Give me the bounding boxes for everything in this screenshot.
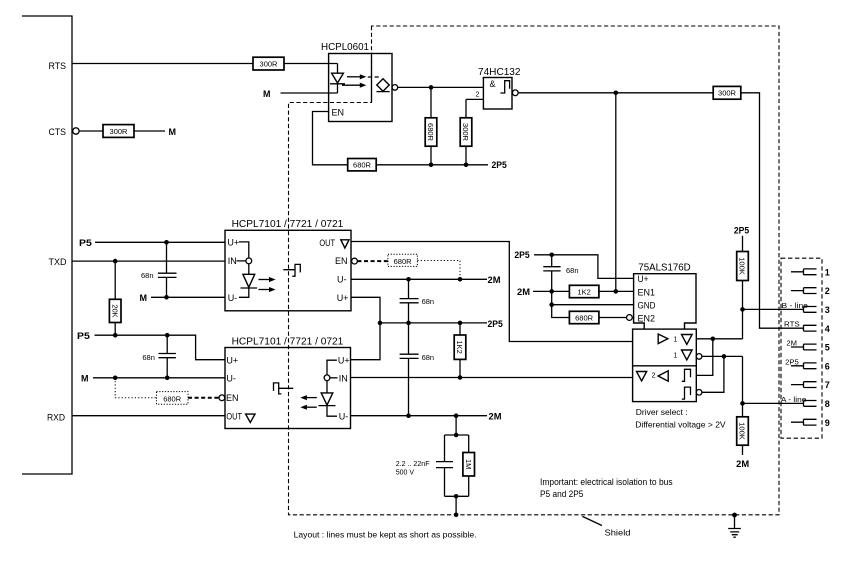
- IC U4 75ALS176D: [634, 263, 696, 330]
- wire receiver row3 input: [696, 339, 713, 376]
- isolation barrier solid segment inside HCPL0601: [371, 55, 373, 102]
- svg-text:74HC132: 74HC132: [478, 67, 521, 78]
- svg-text:Important: electrical isolatio: Important: electrical isolation to bus: [540, 477, 673, 487]
- svg-text:P5: P5: [77, 331, 90, 341]
- svg-text:2P5: 2P5: [734, 226, 749, 236]
- resistor 1K2 (EN1): [569, 285, 599, 297]
- node junction shield ground: [732, 513, 737, 518]
- wire opto output to 74HC132 input1: [398, 86, 484, 88]
- wire P5 to U3 U+: [95, 335, 226, 360]
- wire EN1 drop vertical: [615, 93, 617, 292]
- resistor 20K (TXD pullup): [109, 261, 121, 335]
- pin 6 2P5: [785, 359, 830, 371]
- diode LED (U3): [319, 381, 338, 417]
- wire left host border: [22, 16, 72, 474]
- wire CTS to resistor: [79, 130, 103, 132]
- svg-text:EN2: EN2: [638, 313, 656, 323]
- svg-text:M: M: [263, 89, 271, 99]
- svg-text:U+: U+: [226, 356, 238, 366]
- op-amp U2 HCPL7101 upper: [225, 219, 351, 311]
- internal input circle (U2): [237, 242, 252, 264]
- wire 2M rail (U3): [351, 415, 488, 417]
- wire M to U3 U-: [93, 377, 225, 379]
- wire EN dashed (U3): [188, 397, 219, 399]
- svg-text:Differential voltage > 2V: Differential voltage > 2V: [635, 420, 726, 430]
- wire dotted M to 680R (U3 EN): [115, 378, 156, 398]
- pin 2: [791, 286, 830, 296]
- node junction M/cap: [164, 295, 169, 300]
- svg-text:P5 and 2P5: P5 and 2P5: [540, 489, 583, 499]
- op-amp U1 HCPL0601 optocoupler: [321, 42, 392, 122]
- light arrows (U2): [259, 277, 276, 292]
- svg-text:2: 2: [476, 92, 480, 99]
- pin 7: [791, 380, 830, 390]
- resistor 1M: [463, 435, 475, 496]
- wire 2M to cap branch: [455, 416, 457, 435]
- svg-text:U-: U-: [339, 412, 349, 422]
- pin EN2 circle (U4): [627, 315, 633, 321]
- output circle (HCPL0601): [392, 85, 398, 91]
- wire U2 OUT to driver input: [351, 242, 633, 342]
- resistor 680R (EN pullup horizontal): [348, 159, 377, 171]
- svg-text:1: 1: [674, 352, 678, 359]
- pin OUT label (U2 right): [319, 238, 349, 248]
- svg-text:680R: 680R: [163, 394, 182, 403]
- resistor 300R (vertical, NAND in2): [460, 99, 472, 164]
- svg-text:2M: 2M: [517, 287, 530, 297]
- wire CTS resistor to M: [134, 130, 165, 132]
- svg-text:68n: 68n: [566, 266, 579, 275]
- node junction EN1: [614, 289, 619, 294]
- resistor 300R (to RTS pin4): [713, 86, 741, 99]
- resistor 300R (RTS): [253, 57, 284, 70]
- svg-text:2M: 2M: [736, 459, 749, 469]
- svg-text:OUT: OUT: [226, 412, 242, 422]
- capacitor 2.2..22nF: [396, 435, 469, 496]
- svg-text:2M: 2M: [489, 411, 502, 421]
- svg-text:HCPL0601: HCPL0601: [321, 42, 369, 53]
- svg-text:U-: U-: [226, 373, 236, 383]
- svg-text:2: 2: [652, 373, 656, 380]
- pin circle CTS: [73, 128, 79, 134]
- node junction 1K2/2P5 rail: [458, 321, 463, 326]
- svg-text:2M: 2M: [488, 275, 501, 285]
- wire cap branch bottom: [445, 496, 469, 515]
- wire 1K2 to EN1: [599, 290, 634, 292]
- svg-text:A - line: A - line: [781, 397, 807, 404]
- wire 2P5 mid rail: [380, 322, 487, 324]
- svg-text:9: 9: [825, 418, 830, 428]
- svg-text:1M: 1M: [464, 459, 473, 469]
- pin 4 RTS: [784, 322, 830, 334]
- wire EN2 run: [552, 305, 570, 318]
- svg-text:2P5: 2P5: [514, 250, 529, 260]
- receiver triangles row3: [637, 369, 691, 381]
- capacitor 68n (mid upper): [400, 279, 435, 323]
- wire U+ column U2-U3: [351, 297, 380, 359]
- svg-text:75ALS176D: 75ALS176D: [638, 263, 690, 274]
- resistor 1K2 (vertical mid): [454, 323, 466, 378]
- svg-text:5: 5: [825, 343, 830, 353]
- node junction TXD/20K: [113, 259, 118, 264]
- isolation dashed boundary: [289, 26, 780, 515]
- svg-text:U+: U+: [338, 356, 350, 366]
- svg-text:300R: 300R: [461, 123, 470, 142]
- svg-text:Layout : lines must be kept as: Layout : lines must be kept as short as …: [294, 530, 477, 540]
- svg-text:RXD: RXD: [47, 413, 65, 423]
- svg-text:7: 7: [825, 380, 830, 390]
- pin EN circle (U2): [352, 258, 358, 264]
- svg-text:P5: P5: [79, 238, 92, 248]
- svg-text:680R: 680R: [394, 257, 413, 266]
- svg-text:U-: U-: [228, 293, 238, 303]
- resistor 300R (CTS): [103, 125, 134, 138]
- output circle row4: [696, 390, 702, 396]
- wire driver out row1 to B net: [696, 338, 742, 340]
- node junction cap/P5: [165, 333, 170, 338]
- schmitt symbol (U3): [274, 383, 294, 394]
- diode LED (HCPL0601): [330, 64, 345, 94]
- pin 1: [791, 267, 830, 277]
- node junction GND: [549, 302, 554, 307]
- svg-text:U+: U+: [227, 237, 239, 247]
- wire receiver output to U3 IN: [351, 377, 633, 379]
- svg-text:3: 3: [825, 305, 830, 315]
- wire A-line to pin8: [743, 402, 804, 404]
- svg-text:EN: EN: [335, 256, 348, 266]
- gate 74HC132 NAND: [476, 67, 521, 109]
- svg-text:680R: 680R: [575, 314, 594, 323]
- svg-text:68n: 68n: [141, 271, 154, 280]
- wire NAND output to 300R: [518, 92, 713, 94]
- light arrows (HCPL0601): [342, 74, 379, 88]
- svg-text:8: 8: [825, 399, 830, 409]
- svg-text:1: 1: [674, 337, 678, 344]
- svg-text:68n: 68n: [422, 353, 435, 362]
- svg-text:100K: 100K: [738, 257, 747, 275]
- pin EN circle (U3): [219, 395, 225, 401]
- node junction shield border: [454, 513, 459, 518]
- wire 2M to 1K2: [533, 290, 569, 292]
- node junction 2P5/cap: [549, 253, 554, 258]
- wire B-line to pin3: [743, 309, 804, 338]
- node junction row1/receiver: [711, 337, 716, 342]
- wire 300R to connector pin4 RTS: [741, 93, 804, 328]
- node junction P5/cap: [164, 240, 169, 245]
- light arrows (U3): [300, 395, 317, 410]
- svg-text:1K2: 1K2: [577, 288, 590, 297]
- node junction B-line: [740, 307, 745, 312]
- wire EN to 680R: [313, 112, 348, 165]
- svg-text:TXD: TXD: [49, 257, 68, 267]
- node junction cap branch top: [454, 433, 459, 438]
- wire RTS to resistor: [72, 63, 253, 65]
- diode LED (U2): [239, 264, 257, 298]
- svg-text:300R: 300R: [110, 127, 129, 136]
- wire RXD to U3 OUT: [72, 415, 225, 417]
- node junction 300R/2P5: [464, 163, 469, 168]
- node junction A-line: [740, 401, 745, 406]
- svg-text:RTS: RTS: [49, 61, 67, 71]
- svg-text:2: 2: [825, 286, 830, 296]
- internal input circle (U3): [324, 375, 330, 381]
- svg-text:68n: 68n: [142, 353, 155, 362]
- driver buffer triangle row1: [658, 334, 692, 344]
- wire driver out row2 to A net: [702, 356, 743, 403]
- svg-text:680R: 680R: [426, 123, 435, 142]
- wire M to U2 U-: [151, 296, 225, 298]
- node junction cap branch bottom: [454, 494, 459, 499]
- node junction caps/2M rail: [406, 277, 411, 282]
- svg-text:U-: U-: [337, 275, 347, 285]
- svg-text:&: &: [490, 79, 496, 89]
- wire NAND input2: [466, 98, 483, 100]
- svg-text:6: 6: [825, 361, 830, 371]
- wire P5 to U2 U+: [95, 241, 225, 243]
- pin 8 A-line: [781, 397, 830, 409]
- svg-text:M: M: [81, 373, 89, 383]
- wire M to opto LED: [281, 92, 338, 94]
- connector X1 dashed box: [781, 258, 822, 438]
- node junction dotted/M: [113, 376, 118, 381]
- svg-text:300R: 300R: [718, 89, 737, 98]
- wire EN dashed (U2): [357, 260, 388, 262]
- svg-text:EN: EN: [332, 108, 345, 118]
- node junction cap/M: [165, 376, 170, 381]
- wire dotted 680R to 2M rail: [417, 261, 460, 280]
- capacitor 68n (U3 input): [142, 335, 176, 378]
- node junction 20K/P5: [113, 333, 118, 338]
- output circle row2: [696, 354, 702, 360]
- node junction NAND-out/EN1 drop: [614, 91, 619, 96]
- svg-text:IN: IN: [228, 256, 237, 266]
- node junction 680R/2P5: [429, 163, 434, 168]
- svg-text:Driver select :: Driver select :: [636, 407, 688, 417]
- node junction 1K2/receiver wire: [458, 375, 463, 380]
- svg-text:680R: 680R: [353, 161, 372, 170]
- svg-text:Shield: Shield: [605, 528, 631, 538]
- svg-text:2P5: 2P5: [488, 319, 503, 329]
- capacitor 68n (U4 supply): [543, 255, 578, 292]
- schmitt symbol (U2): [283, 264, 300, 276]
- svg-text:M: M: [169, 127, 177, 137]
- resistor 680R dotted (U3 EN): [157, 392, 189, 405]
- pin U+ label (U3 right): [327, 356, 350, 375]
- node junction U+/2P5 rail: [378, 321, 383, 326]
- svg-text:HCPL7101 / 7721 / 0721: HCPL7101 / 7721 / 0721: [232, 219, 344, 230]
- pin OUT label (U3 left): [226, 412, 255, 423]
- op-amp U3 HCPL7101 lower: [225, 337, 351, 429]
- node junction caps/2P5 rail: [406, 321, 411, 326]
- pin 5 2M: [786, 341, 829, 353]
- resistor 680R (vertical pullup): [425, 87, 437, 164]
- capacitor 68n (U2 input): [141, 242, 177, 297]
- svg-text:U+: U+: [337, 293, 349, 303]
- wire 680R to EN2 circle: [599, 317, 627, 319]
- resistor 100K (B pullup): [737, 236, 749, 310]
- detector diamond (HCPL0601): [377, 79, 390, 92]
- svg-text:2P5: 2P5: [492, 160, 507, 170]
- svg-text:20K: 20K: [110, 304, 119, 317]
- pin 9: [791, 418, 830, 428]
- wire GND run: [552, 291, 634, 304]
- wire TXD to U2 IN: [72, 260, 225, 262]
- svg-text:OUT: OUT: [319, 238, 335, 248]
- node junction capbranch/2M: [454, 413, 459, 418]
- svg-text:CTS: CTS: [49, 127, 67, 137]
- svg-text:1: 1: [825, 267, 830, 277]
- wire shield callout: [582, 516, 602, 525]
- svg-text:IN: IN: [339, 373, 348, 383]
- resistor 680R dotted (U2 EN): [388, 254, 418, 266]
- svg-text:4: 4: [825, 324, 830, 334]
- node junction caps/2M: [406, 413, 411, 418]
- svg-text:U+: U+: [638, 274, 649, 284]
- node junction dotted/2M rail: [458, 277, 463, 282]
- resistor 680R (EN2): [569, 311, 599, 323]
- svg-text:68n: 68n: [422, 297, 435, 306]
- wire 2P5 to U4 U+: [534, 255, 634, 279]
- svg-text:RTS: RTS: [784, 322, 800, 329]
- node junction 2M/cap: [549, 289, 554, 294]
- svg-text:500 V: 500 V: [396, 468, 414, 477]
- svg-text:HCPL7101 / 7721 / 0721: HCPL7101 / 7721 / 0721: [232, 337, 344, 348]
- driver inverted triangle row2: [674, 350, 693, 360]
- wire RTS resistor to opto: [284, 63, 338, 65]
- node junction row2/row4: [722, 354, 727, 359]
- pin IN label (U3 right): [330, 373, 348, 383]
- svg-text:EN: EN: [226, 393, 239, 403]
- svg-text:1K2: 1K2: [455, 341, 464, 354]
- svg-text:GND: GND: [638, 301, 656, 311]
- svg-text:100K: 100K: [738, 422, 747, 440]
- svg-text:M: M: [140, 293, 148, 303]
- capacitor 68n (mid lower): [400, 323, 435, 416]
- wire schmitt row4 input: [702, 356, 724, 392]
- ground symbol: [728, 515, 741, 537]
- wire 2M rail (U2): [351, 278, 487, 280]
- svg-text:EN1: EN1: [638, 287, 656, 297]
- svg-text:300R: 300R: [260, 59, 279, 68]
- driver receiver block (U4): [633, 329, 697, 402]
- pin 3 B-line: [782, 303, 830, 315]
- node junction opto-out/680R: [429, 85, 434, 90]
- schmitt row4: [682, 387, 691, 399]
- wire 2P5 rail top: [376, 164, 488, 166]
- resistor 100K (A pulldown): [737, 403, 749, 455]
